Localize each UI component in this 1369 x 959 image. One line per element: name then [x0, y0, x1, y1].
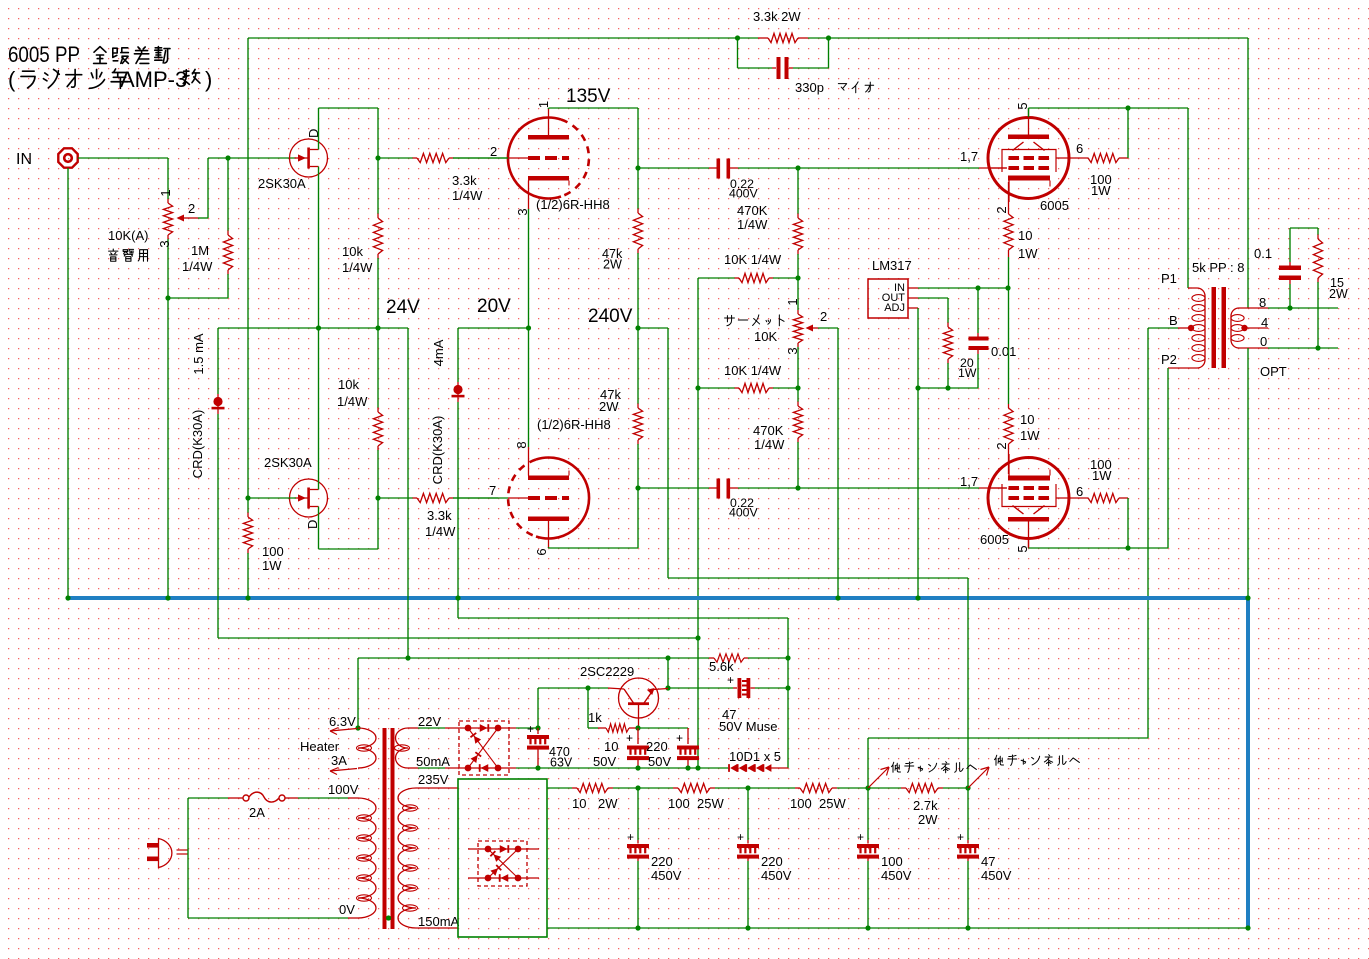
svg-text:2: 2 — [820, 309, 827, 324]
svg-text:25W: 25W — [819, 796, 846, 811]
svg-text:1W: 1W — [1091, 183, 1111, 198]
resistor R8 47k 2W (upper) — [637, 168, 639, 209]
svg-text:10: 10 — [604, 739, 618, 754]
svg-text:1W: 1W — [262, 558, 282, 573]
capacitor C6 47/50V Muse — [733, 687, 737, 689]
svg-text:): ) — [205, 67, 212, 92]
capacitor C8 220/50V — [687, 728, 689, 744]
resistor R15 10 1W (upper) — [1008, 182, 1010, 214]
svg-text:1/4W: 1/4W — [337, 394, 368, 409]
svg-text:100: 100 — [881, 854, 903, 869]
svg-text:+: + — [527, 722, 534, 736]
resistor R7 3.3k 1/4W (lower grid) — [378, 497, 413, 499]
svg-text:3.3k: 3.3k — [427, 508, 452, 523]
svg-text:1/4W: 1/4W — [182, 259, 213, 274]
wire Q1 drain up — [318, 108, 320, 150]
svg-text:100: 100 — [262, 544, 284, 559]
wire P1 drop — [1187, 108, 1189, 288]
svg-text:D: D — [305, 520, 320, 529]
C9 plates — [527, 735, 549, 739]
bottom rail — [547, 927, 1248, 929]
ground bus vertical — [1246, 598, 1250, 928]
svg-text:1W: 1W — [1092, 468, 1112, 483]
wire Q2 drain down — [318, 507, 320, 550]
thermistor pot VR2 10K — [797, 278, 799, 310]
resistor R2 10k 1/4W (upper) — [377, 158, 379, 214]
svg-text:2W: 2W — [1329, 287, 1348, 301]
VR2 labels — [725, 315, 735, 325]
junction IN/cap — [975, 285, 980, 290]
wire bias left drop top — [697, 278, 699, 388]
wire 22V — [408, 727, 418, 729]
junction drain node — [375, 155, 380, 160]
svg-text:3: 3 — [785, 347, 800, 354]
wire 235V — [416, 787, 458, 789]
wire V1b cathode up — [528, 328, 530, 447]
svg-text:10K: 10K — [754, 329, 777, 344]
svg-text:6005: 6005 — [1040, 198, 1069, 213]
svg-text:2W: 2W — [599, 399, 619, 414]
bottom rail to bus — [1245, 925, 1250, 930]
resistor R21 1k — [588, 727, 598, 729]
U1 IN pin wire — [908, 287, 918, 289]
svg-text:1,7: 1,7 — [960, 474, 978, 489]
transistor Q2 2SK30A — [290, 479, 328, 517]
T2 22V winding — [396, 728, 409, 768]
wire feedback left drop — [247, 38, 249, 498]
wire top feedback rail left — [248, 37, 758, 39]
svg-text:0: 0 — [1260, 334, 1267, 349]
svg-text:0.01: 0.01 — [991, 344, 1016, 359]
svg-text:2: 2 — [188, 201, 195, 216]
junction V1a plate node — [635, 165, 640, 170]
wire Q1 source down — [318, 167, 320, 329]
svg-text:400V: 400V — [729, 506, 759, 520]
wire wiper to FET1 gate — [208, 157, 296, 159]
wire B down — [1147, 328, 1149, 738]
svg-text:AMP-3: AMP-3 — [120, 67, 187, 92]
bus junction x458 — [455, 595, 460, 600]
wire bias drop to diode rail — [697, 638, 699, 768]
to other channel label 1 — [892, 762, 901, 772]
junction screen node lower — [1125, 545, 1130, 550]
wire 0 tap ground drop — [1247, 348, 1249, 598]
junction at 1M top — [225, 155, 230, 160]
svg-text:ADJ: ADJ — [884, 302, 905, 314]
resistor R16 10 1W (lower) — [1008, 288, 1010, 404]
tube V1a (1/2)6R-HH8 upper triode — [508, 118, 561, 199]
wire B feed — [1148, 327, 1178, 329]
capacitor C11 220/450V — [747, 788, 749, 840]
svg-text:3A: 3A — [331, 753, 347, 768]
junction R20 right — [785, 655, 790, 660]
to other channel label 2 — [995, 755, 1004, 765]
bottom rail junction x748 — [745, 925, 750, 930]
wire rail drop to 6.3V — [357, 658, 359, 728]
svg-text:2SK30A: 2SK30A — [264, 455, 312, 470]
svg-text:10: 10 — [1018, 228, 1032, 243]
C7 bottom lead — [637, 759, 639, 768]
wire B to PSU — [868, 737, 1148, 739]
wire 240V row — [668, 577, 968, 579]
capacitor C3 0.22/400V (lower) — [638, 487, 709, 489]
junction cathode node — [1005, 285, 1010, 290]
transistor Q1 2SK30A — [290, 139, 328, 177]
resistor R5 3.3k 2W — [768, 33, 798, 42]
svg-text:0V: 0V — [339, 902, 355, 917]
bus junction x248 — [245, 595, 250, 600]
svg-text:(: ( — [8, 67, 16, 92]
resistor R24 100 25W — [795, 787, 800, 789]
svg-text:P2: P2 — [1161, 352, 1177, 367]
svg-text:135V: 135V — [566, 86, 611, 107]
junction 1k tap — [585, 685, 590, 690]
junction FET sources on 24V rail — [316, 325, 321, 330]
junction 20V rail / V1a cathode — [526, 325, 531, 330]
svg-text:10D1 x 5: 10D1 x 5 — [729, 749, 781, 764]
tube V2b 6005 (lower) — [988, 458, 1069, 539]
junction R10 bottom — [795, 275, 800, 280]
wire ADJ link — [918, 387, 978, 389]
junction emitter row — [665, 685, 670, 690]
bus junction x68 — [65, 595, 70, 600]
junction 24V feed — [405, 655, 410, 660]
svg-text:10: 10 — [1020, 412, 1034, 427]
capacitor C5 0.1 — [1289, 228, 1291, 262]
resistor R1 1M 1/4W — [227, 158, 229, 231]
wire Q2 drain loop — [319, 548, 379, 550]
junction zobel res — [1315, 345, 1320, 350]
svg-text:5.6k: 5.6k — [709, 659, 734, 674]
svg-text:2W: 2W — [598, 796, 618, 811]
svg-text:100V: 100V — [328, 782, 359, 797]
wire IN to pot — [78, 157, 168, 159]
svg-text:(1/2)6R-HH8: (1/2)6R-HH8 — [536, 197, 610, 212]
svg-text:IN: IN — [16, 151, 32, 168]
wire collector row — [538, 687, 608, 689]
svg-text:1/4W: 1/4W — [452, 188, 483, 203]
wire 24V rail — [218, 327, 408, 329]
svg-text:1/4W: 1/4W — [342, 260, 373, 275]
svg-text:OPT: OPT — [1260, 364, 1287, 379]
svg-text:47: 47 — [981, 854, 995, 869]
svg-text:8: 8 — [514, 441, 529, 448]
capacitor C12 100/450V — [867, 788, 869, 840]
svg-text:1,7: 1,7 — [960, 149, 978, 164]
wire plug riser — [187, 798, 189, 918]
capacitor C2 0.22/400V (upper) — [638, 167, 709, 169]
wire 150mA — [416, 927, 458, 929]
other channel arrow 2 — [968, 767, 989, 788]
wire CRD2 return — [458, 617, 788, 619]
svg-text:0.1: 0.1 — [1254, 246, 1272, 261]
capacitor C13 47/450V — [967, 788, 969, 840]
junction fb cap right — [826, 35, 831, 40]
resistor R13 470K 1/4W (lower) — [797, 388, 799, 402]
svg-text:10k: 10k — [338, 377, 359, 392]
wire IN shield down to ground bus — [67, 168, 69, 598]
wire VR2 wiper down to bus — [837, 328, 839, 598]
svg-text:+: + — [676, 731, 683, 745]
wire V2b plate row — [1029, 547, 1169, 549]
wire P2 drop — [1167, 368, 1169, 548]
svg-text:+: + — [626, 731, 633, 745]
svg-text:1: 1 — [536, 101, 551, 108]
link to emitter row — [667, 658, 669, 688]
junction C3 out — [795, 485, 800, 490]
wire R17 up — [1127, 108, 1129, 158]
svg-text:1W: 1W — [1020, 428, 1040, 443]
wire minus rail — [516, 767, 728, 769]
wire pot bottom — [168, 297, 228, 299]
wire grid row V2a — [798, 167, 979, 169]
svg-text:470K: 470K — [753, 423, 784, 438]
junction R3 bottom — [375, 495, 380, 500]
T2 heater winding — [358, 728, 376, 768]
junction C13 / 240V tap — [965, 785, 970, 790]
junction zobel cap — [1287, 305, 1292, 310]
junction 240V rail top — [635, 325, 640, 330]
junction C2 out — [795, 165, 800, 170]
resistor R14 20 1W — [947, 298, 949, 323]
junction C9 minus — [535, 765, 540, 770]
svg-text:CRD(K30A): CRD(K30A) — [190, 410, 205, 479]
junction Q3 base — [635, 725, 640, 730]
svg-text:5k PP : 8: 5k PP : 8 — [1192, 260, 1245, 275]
T2 primary winding — [358, 798, 376, 918]
wire top feedback rail right — [808, 37, 1248, 39]
junction Q2 gate feedback — [245, 495, 250, 500]
svg-text:330p: 330p — [795, 80, 824, 95]
resistor R3 10k 1/4W (lower) — [377, 328, 379, 408]
svg-text:+: + — [627, 830, 634, 844]
svg-text:2A: 2A — [249, 805, 265, 820]
svg-text:10: 10 — [572, 796, 586, 811]
wire 50mA — [408, 767, 418, 769]
U1 OUT pin wire — [908, 297, 918, 299]
wire P2 lead — [1168, 367, 1192, 369]
svg-text:50V: 50V — [648, 754, 671, 769]
wire 0V — [188, 917, 348, 919]
svg-text:450V: 450V — [881, 868, 912, 883]
CRD D2 (K30A) 4mA — [457, 328, 459, 382]
svg-text:CRD(K30A): CRD(K30A) — [430, 416, 445, 485]
resistor R6 3.3k 1/4W (upper grid) — [378, 157, 413, 159]
svg-text:450V: 450V — [761, 868, 792, 883]
capacitor C10 220/450V — [637, 788, 639, 840]
wire base row — [638, 727, 688, 729]
AC plug P1 — [147, 843, 158, 848]
C8 bottom lead — [687, 759, 689, 768]
svg-text:50V Muse: 50V Muse — [719, 719, 778, 734]
svg-text:+: + — [727, 673, 734, 687]
wire V1a plate row 135V — [549, 107, 639, 109]
svg-text:235V: 235V — [418, 772, 449, 787]
wire 1k drop — [587, 688, 589, 728]
bus junction x838 — [835, 595, 840, 600]
junction core 0V oddity — [386, 915, 391, 920]
resistor R19 15 2W — [1317, 228, 1319, 235]
bottom rail junction x638 — [635, 925, 640, 930]
wire CRD1 return — [218, 637, 698, 639]
rectifier module box — [458, 779, 547, 937]
svg-text:2SC2229: 2SC2229 — [580, 664, 634, 679]
svg-text:220: 220 — [761, 854, 783, 869]
svg-text:2W: 2W — [918, 812, 938, 827]
svg-text:2: 2 — [490, 144, 497, 159]
wire P1 lead — [1188, 287, 1192, 289]
C7 plates — [627, 746, 649, 750]
wire PSU rail start — [547, 787, 572, 789]
capacitor C1 330p bypass loop — [737, 38, 739, 68]
svg-text:1/4W: 1/4W — [737, 217, 768, 232]
wire Q1 drain row — [319, 107, 379, 109]
svg-text:100: 100 — [790, 796, 812, 811]
svg-text:+: + — [737, 830, 744, 844]
transformer T1 OPT primary coil — [1192, 288, 1205, 368]
svg-text:470K: 470K — [737, 203, 768, 218]
svg-text:50mA: 50mA — [416, 754, 450, 769]
svg-text:7: 7 — [489, 483, 496, 498]
svg-text:6005: 6005 — [980, 532, 1009, 547]
wire heater elev rail — [358, 657, 709, 659]
junction 6.3V node — [355, 725, 360, 730]
wire Q2 source up — [318, 328, 320, 490]
junction ADJ node — [915, 385, 920, 390]
wire 24V drop x408 — [407, 328, 409, 658]
junction bias drop / CRD return — [695, 635, 700, 640]
svg-text:2: 2 — [994, 206, 1009, 213]
svg-text:+: + — [857, 830, 864, 844]
bottom rail junction x868 — [865, 925, 870, 930]
junction x668 on rail — [665, 655, 670, 660]
CRD D1 (K30A) 1.5mA — [217, 328, 219, 394]
svg-text:4mA: 4mA — [431, 339, 446, 366]
svg-text:1/4W: 1/4W — [425, 524, 456, 539]
svg-text:150mA: 150mA — [418, 914, 460, 929]
svg-text:4: 4 — [1261, 315, 1268, 330]
wire 240V rail right — [638, 327, 668, 329]
connector J1 RCA jack — [58, 148, 77, 167]
svg-text:2W: 2W — [603, 258, 622, 272]
zobel top link — [1290, 227, 1318, 229]
wire V1a grid — [453, 157, 508, 159]
junction R14 bottom — [945, 385, 950, 390]
wire 20V rail — [458, 327, 529, 329]
svg-text:6: 6 — [1076, 141, 1083, 156]
wire V1b grid — [453, 497, 508, 499]
IC U1 LM317 — [868, 279, 908, 318]
bus junction x918 — [915, 595, 920, 600]
wire V2a plate up — [1028, 108, 1030, 117]
svg-text:3.3k: 3.3k — [452, 173, 477, 188]
resistor R18 100 1W (screen lower) — [1088, 493, 1119, 502]
svg-text:25W: 25W — [697, 796, 724, 811]
wire V1a cathode down — [528, 209, 530, 328]
fuse F1 2A — [188, 797, 228, 799]
wire rail seg4 — [837, 787, 901, 789]
T2 235V winding — [398, 788, 416, 928]
junction C10 — [635, 785, 640, 790]
svg-text:3: 3 — [515, 208, 530, 215]
svg-text:400V: 400V — [729, 187, 759, 201]
svg-text:3.3k 2W: 3.3k 2W — [753, 9, 801, 24]
pot usage label (audio) — [109, 249, 118, 261]
wire V1b plate down — [548, 547, 550, 548]
junction screen node — [1125, 105, 1130, 110]
wire grid row V2b — [798, 487, 979, 489]
diode string D3 10D1 x 5 — [730, 764, 737, 772]
svg-text:6: 6 — [534, 548, 549, 555]
svg-text:5: 5 — [1015, 545, 1030, 552]
junction pot bottom — [165, 295, 170, 300]
svg-text:3: 3 — [157, 240, 172, 247]
junction R2 bottom — [375, 325, 380, 330]
heater arrows — [330, 729, 357, 732]
capacitor C4 0.01 — [977, 288, 979, 333]
svg-text:2.7k: 2.7k — [913, 798, 938, 813]
wire rail seg2 — [613, 787, 673, 789]
svg-text:240V: 240V — [588, 306, 633, 327]
ground bus horizontal — [68, 596, 1248, 600]
svg-text:24V: 24V — [386, 297, 420, 318]
svg-text:220: 220 — [651, 854, 673, 869]
svg-text:6: 6 — [1076, 484, 1083, 499]
wire R18 down — [1127, 498, 1129, 548]
svg-text:1: 1 — [785, 298, 800, 305]
resistor R9 47k 2W (lower) — [637, 328, 639, 404]
svg-text:1M: 1M — [191, 243, 209, 258]
junction C8 minus — [685, 765, 690, 770]
svg-text:100: 100 — [668, 796, 690, 811]
wire plate node down — [637, 108, 639, 168]
resistor R20 5.6k — [709, 657, 714, 659]
junction BR1 plus — [535, 725, 540, 730]
tube V1b (1/2)6R-HH8 lower triode — [536, 458, 589, 539]
wire 100V — [298, 797, 348, 799]
svg-text:10K 1/4W: 10K 1/4W — [724, 363, 782, 378]
svg-text:Heater: Heater — [300, 739, 340, 754]
svg-text:8: 8 — [1259, 295, 1266, 310]
svg-text:1.5 mA: 1.5 mA — [191, 333, 206, 375]
svg-text:450V: 450V — [981, 868, 1012, 883]
wire Q2 gate — [248, 497, 296, 499]
svg-text:1/4W: 1/4W — [754, 437, 785, 452]
svg-text:(1/2)6R-HH8: (1/2)6R-HH8 — [537, 417, 611, 432]
transistor Q3 2SC2229 — [619, 678, 659, 718]
junction bias drop minus — [695, 765, 700, 770]
wire 8 tap — [1239, 307, 1268, 309]
svg-text:220: 220 — [646, 739, 668, 754]
wire 240V riser — [967, 578, 969, 788]
svg-text:10K(A): 10K(A) — [108, 228, 148, 243]
svg-text:1W: 1W — [1018, 246, 1038, 261]
wire V1a plate up — [548, 108, 550, 109]
resistor R4 100 1W — [247, 498, 249, 513]
resistor R12 10K 1/4W (lower) — [698, 387, 735, 389]
wire filter riser — [537, 688, 539, 728]
wire V1b plate up to node — [637, 488, 639, 548]
bus junction x1248 — [1245, 595, 1250, 600]
resistor R10 470K 1/4W (upper) — [797, 168, 799, 214]
junction muse right — [785, 685, 790, 690]
wire x168 down to bus — [167, 298, 169, 598]
wire BR1 plus out — [516, 727, 538, 729]
capacitor C9 470/63V — [537, 728, 539, 734]
bridge rectifier BR2 (235V) — [478, 841, 527, 886]
junction fb res left — [735, 35, 740, 40]
wire bias left drop — [697, 388, 699, 638]
